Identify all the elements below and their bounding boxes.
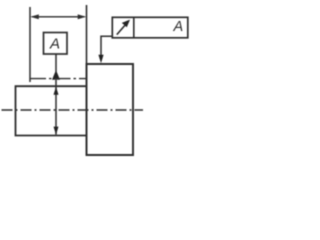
wire: leader from feature control frame [101,36,112,56]
arrowhead left of top dimension [30,14,39,19]
wire: left extension line [29,7,31,82]
wire: leader from datum box to triangle [55,54,57,72]
datum identification box A [44,33,68,55]
wire: right extension line / shared edge of cylinders [86,5,88,155]
wire: horizontal dimension line (top) [32,16,85,18]
wire: axis centerline (datum axis A) [2,109,144,111]
arrowhead up of vertical dimension [54,87,59,95]
svg-text:A: A [173,19,184,35]
svg-text:A: A [49,36,60,53]
small cylinder outline (left rectangle) [16,86,87,135]
arrowhead down of leader to cylinder surface [98,55,103,63]
datum feature triangle (filled) [52,70,60,80]
feature control frame outline [112,17,188,38]
circular runout symbol arrow in frame [117,24,127,35]
arrowhead right of top dimension [78,14,87,19]
wire: vertical dimension line inside small cylinder [55,80,57,135]
feature control frame divider [133,17,135,38]
large cylinder outline (right rectangle) [87,64,134,155]
arrowhead down of vertical dimension [54,127,59,135]
wire: dash-dot line under datum triangle [30,78,87,80]
